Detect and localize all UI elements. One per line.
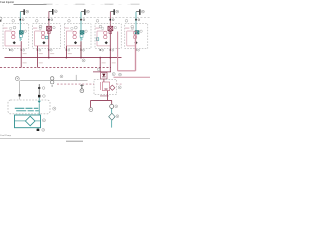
flow arrow (teal) [38,101,41,104]
coil label [24,30,26,32]
wire w5 left [126,31,128,46]
wire w2 bottom [35,45,49,47]
injector module 1 (dashed box) [3,24,29,49]
wire w3 left [65,31,67,46]
wire supply 3 (teal) [80,12,82,31]
junction dots [48,57,111,59]
node label F1 [53,107,56,110]
driver circle Q3b [73,35,76,38]
injector coil L3 [80,31,84,34]
driver circle Q1a [12,31,15,34]
battery feed B+2 (column 2) [49,9,57,15]
ground label G2 [89,108,93,112]
footer rule [0,138,150,140]
injector coil L4 [108,26,113,31]
injector module 5 (dashed box) [125,24,148,49]
ground wire (left) [20,80,87,82]
driver circle Q4a [104,31,107,34]
coil label [114,26,116,28]
resistor R1 [20,37,22,41]
pin 4a [100,49,104,51]
node label P1 [42,119,45,122]
node label 5 [125,20,128,23]
relay coil K1 [102,82,109,91]
node label E1 [42,87,45,90]
injector module 4 (dashed box) [95,24,121,49]
diode D1 box [101,72,107,79]
wire w4 left [96,31,98,46]
driver circle Q3a [73,31,76,34]
node label left edge [0,17,2,22]
wire w1 left [4,31,6,46]
node label P2 [42,129,45,132]
relay contact marks [105,88,108,90]
splice dashes right of relay box [117,83,123,85]
pin 3b [80,49,84,51]
wire pink U right [135,36,137,71]
injector coil L2 [47,26,52,31]
battery feed B+1 (column 1) [20,9,28,15]
wire w3 bottom [66,45,81,47]
caption under relay [100,95,109,96]
fuel sender module (dashed rounded box) [8,100,50,114]
return bus (dashed) [0,67,111,69]
connector circle CC1 [110,104,114,108]
driver circle Q2b [41,35,44,38]
wire supply 5 (teal) [135,12,137,31]
pin 4b [110,49,114,51]
pin 2a [37,49,41,51]
driver circle Q5b [133,35,136,38]
wire pump feed horizontal [91,99,112,101]
wire into pump [38,103,40,115]
pin 5a [135,49,139,51]
label 3a [74,26,77,29]
wire K1 out [107,91,109,101]
wire K1 left [99,82,101,90]
wire pink U bottom [118,70,136,72]
wire drop inj2a [36,46,38,68]
splice dashed line [57,83,94,85]
resistor R4 [96,38,99,41]
wire supply 2 (dark red) [48,11,50,26]
connector pin C4 [110,19,115,21]
wire pink feed right [114,76,151,78]
resistor R2 [45,36,48,39]
wire w5 top [127,30,134,32]
title underline rule [14,3,47,5]
driver circle Q2a [41,31,44,34]
wire w2 left [34,31,36,46]
node label GW2 [60,75,63,78]
driver circle Q1b [12,35,15,38]
junction diamond J5 [134,41,137,44]
pin 3a [66,49,70,51]
pump diamond [25,116,35,126]
supply bus (solid) [5,57,122,59]
fuel pump relay box (dashed) [94,79,117,94]
node label U1 [119,73,122,76]
inline connector diamond [109,113,115,120]
wire colour labels [3,27,133,29]
harness boundary dashed line [0,16,150,18]
node label CC1a [115,105,118,108]
wire drop inj3b [80,41,82,57]
svg-text:Fuel Injector: Fuel Injector [0,1,14,4]
label 4a [99,25,102,28]
footer page text [66,141,83,142]
node label 4 [96,20,99,23]
pin 1a [9,49,13,51]
ground tick [80,85,84,87]
junction diamond J1 [13,41,16,44]
valve marks V2 [48,31,51,33]
node label R0 [97,68,100,71]
wire teal link b [111,120,113,127]
connector pin C3 [80,19,85,21]
battery feed B+5 (column 5) [136,9,144,15]
connector pin C2 [48,19,53,21]
wire drop inj2b [48,31,50,58]
wire pump signal drop [38,84,40,94]
junction diamond J4 [105,41,108,44]
node label 1 [12,20,15,23]
wire K1 in [103,79,105,82]
connector CG1 [51,77,54,80]
battery feed B+3 (column 3) [81,9,89,15]
driver circle Q4b [104,35,107,38]
coil label [85,30,87,32]
connector CE1 [19,94,21,96]
label 1a [13,26,16,29]
connector CG2 [51,81,54,84]
ground wire stub up [75,75,77,81]
pin 2b [48,49,52,51]
pin 1b [21,49,25,51]
coil label [53,26,55,28]
injector module 2 (dashed box) [33,24,61,49]
sender text marks [15,108,24,109]
valve marks V4 [109,31,112,33]
wire gauge labels [23,53,116,63]
valve box V3 [80,35,83,38]
coil label [140,30,142,32]
wire w1 bottom [5,45,21,47]
pump wire left [15,120,26,122]
svg-text:Fuel Pump: Fuel Pump [0,135,11,137]
driver circle Q5a [133,31,136,34]
connector CG3 [51,85,53,86]
wire w1 top [5,30,12,32]
pump wire right [35,120,41,122]
wire supply 4 (dark red) [109,12,111,27]
connector pin C5 [135,19,140,21]
ground drop G103 [81,84,83,89]
resistor R3 [80,37,82,41]
diode D1 [102,74,106,77]
connector CP1 [37,129,40,131]
wire bus to relay [99,58,101,72]
wire ECM drop (gray) [19,81,21,100]
wire w3 top [66,30,73,32]
connector CE2 [38,87,40,89]
valve box V1 [19,35,22,38]
node label K1a [118,86,121,89]
wire teal link a [111,108,113,113]
wire pink U left [117,32,119,71]
wire stub left [90,100,92,107]
wire drop inj3a [65,46,67,58]
wire supply 1 (teal) [19,12,21,31]
wire w4 top [97,30,104,32]
connector pin C1 [20,19,25,21]
node label 2 [36,20,39,23]
hot-at-all-times captions [44,3,140,6]
injector coil L5 [135,31,139,34]
junction diamond J2 [42,41,45,44]
wire w4 bottom [97,45,110,47]
node label GW1 [15,77,19,81]
wire drop inj1 [20,41,22,67]
battery feed B+4 (column 4) [110,9,118,15]
node label 3 [68,20,71,23]
junction diamond J3 [74,41,77,44]
wire stub right [111,100,113,104]
wire drop inj4 [109,31,111,72]
node label DD1 [116,115,119,118]
connector CE3 [38,95,40,98]
label 2a [39,25,42,28]
diamond K1d [110,85,115,90]
injector module 3 (dashed box) [64,24,91,49]
wire pump out [37,128,39,131]
wire w5 bottom [127,45,136,47]
node label D1a [112,73,115,76]
node label S1 [82,59,85,62]
wire relay feed [93,71,111,73]
node label E2 [43,95,46,98]
fuel pump box (teal) [15,115,41,128]
ground circle G103 [80,89,84,93]
wire w2 top [35,30,42,32]
injector coil L1 [19,31,23,34]
label 5a [131,25,134,28]
